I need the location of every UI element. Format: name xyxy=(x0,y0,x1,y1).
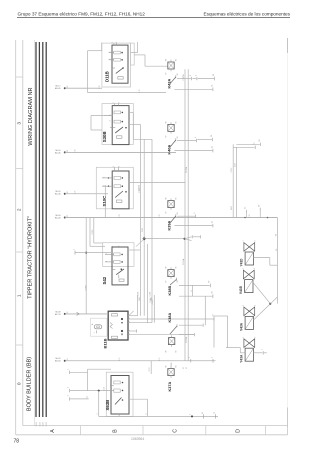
svg-text:30: 30 xyxy=(259,140,261,142)
svg-text:6: 6 xyxy=(190,75,192,76)
wire main rail y=217.5 xyxy=(65,217,278,219)
wire vertical x=87.5 lower xyxy=(87,369,89,390)
frame left border xyxy=(15,40,17,435)
wire long vertical x=152 xyxy=(151,152,153,322)
svg-text:1: 1 xyxy=(202,412,204,413)
pin xyxy=(262,349,264,354)
pin 15 xyxy=(254,143,256,149)
svg-text:C137: C137 xyxy=(234,163,236,167)
svg-text:31: 31 xyxy=(183,367,185,369)
svg-text:3: 3 xyxy=(104,185,106,186)
svg-text:2: 2 xyxy=(118,102,120,103)
svg-text:S10C: S10C xyxy=(102,196,107,207)
wire vertical x=90 xyxy=(89,218,91,247)
letter row tick xyxy=(205,426,207,435)
svg-text:0.75: 0.75 xyxy=(159,214,161,217)
svg-text:30: 30 xyxy=(211,291,213,293)
svg-text:1: 1 xyxy=(112,246,114,247)
svg-text:86: 86 xyxy=(166,59,168,61)
svg-text:31: 31 xyxy=(245,207,247,209)
svg-text:C105A: C105A xyxy=(137,184,140,190)
svg-text:2: 2 xyxy=(17,208,23,211)
wire X63B right y=399 xyxy=(129,398,148,400)
wire K38B upper xyxy=(179,284,210,286)
wire vertical x=154 xyxy=(153,295,155,323)
frame zone tick xyxy=(16,251,23,253)
wire K40A lower xyxy=(174,150,212,152)
svg-text:3: 3 xyxy=(68,395,70,396)
wire vertical x=144 upper xyxy=(143,139,145,237)
svg-text:85: 85 xyxy=(175,59,177,61)
svg-text:2: 2 xyxy=(68,387,70,388)
svg-text:D: D xyxy=(236,429,242,433)
svg-text:85: 85 xyxy=(175,198,177,200)
junction on bottom rail xyxy=(191,415,193,417)
svg-text:2: 2 xyxy=(146,414,148,415)
wire bottom rail y=416.4 xyxy=(99,415,218,417)
frame letter row top line xyxy=(23,425,288,427)
pin xyxy=(194,333,196,336)
pin on x=140 xyxy=(138,292,140,301)
wire B11 right y=319 xyxy=(128,318,214,320)
svg-text:1: 1 xyxy=(112,42,114,43)
svg-text:31: 31 xyxy=(211,221,213,223)
svg-text:2: 2 xyxy=(255,337,257,338)
wire long y=92.5 xyxy=(88,92,167,94)
wire into Y43A xyxy=(240,352,245,354)
wire vertical x=86 xyxy=(85,218,87,314)
svg-text:3: 3 xyxy=(129,322,131,323)
svg-text:Grupo 37 Esquema eléctrico FM9: Grupo 37 Esquema eléctrico FM9, FM12, FH… xyxy=(18,12,146,17)
svg-text:86: 86 xyxy=(166,267,168,269)
svg-text:TIPPER TRACTOR “HYDROKIT”: TIPPER TRACTOR “HYDROKIT” xyxy=(27,216,33,299)
svg-text:1: 1 xyxy=(73,249,75,250)
svg-text:S30B: S30B xyxy=(102,131,107,142)
wire fan lower xyxy=(185,239,192,241)
wire diagonal V43B to junction xyxy=(253,283,270,304)
pin xyxy=(212,314,214,321)
wire step right of S30B xyxy=(133,138,152,140)
wire y=399 left xyxy=(70,398,89,400)
wire vertical x=87.5 xyxy=(87,51,89,93)
wire xyxy=(193,236,200,238)
wire K40A upper xyxy=(177,140,196,142)
connector unit X63B xyxy=(105,372,133,416)
wire xyxy=(192,78,196,80)
wire xyxy=(264,352,267,354)
relay K38B contact xyxy=(170,278,177,285)
svg-text:C105A: C105A xyxy=(182,258,185,265)
wire feed node at y=194 xyxy=(55,191,108,196)
wire into D11B upper left xyxy=(88,50,102,52)
svg-text:K38A: K38A xyxy=(168,313,172,323)
wire vertical x=147.5 xyxy=(147,244,149,323)
frame right border faint segment xyxy=(287,53,289,408)
wire feed node bottom rail y=361 xyxy=(55,358,216,363)
svg-text:1: 1 xyxy=(189,357,191,358)
svg-text:85: 85 xyxy=(175,122,177,124)
svg-text:1: 1 xyxy=(68,369,70,370)
svg-text:1: 1 xyxy=(17,294,23,297)
wire long vertical x=185 xyxy=(184,69,186,361)
switch S10C xyxy=(96,167,133,209)
svg-text:1.0: 1.0 xyxy=(119,414,121,416)
wire diagonal into B11 corner xyxy=(129,311,134,316)
svg-text:Y43D: Y43D xyxy=(239,258,243,267)
svg-text:2: 2 xyxy=(111,380,113,381)
svg-text:31: 31 xyxy=(186,367,188,369)
frame zone tick xyxy=(16,168,23,170)
svg-text:5: 5 xyxy=(195,137,197,138)
pin xyxy=(136,329,138,332)
wire vertical x=236 xyxy=(235,147,237,217)
wire vertical x=192.5 xyxy=(192,285,194,296)
wire vertical x=214 xyxy=(213,316,215,348)
wire to pin 30 xyxy=(198,78,214,80)
svg-text:85: 85 xyxy=(175,351,177,353)
connector X at B11 left xyxy=(91,318,108,336)
wire K38A upper xyxy=(179,324,203,326)
letter row tick xyxy=(265,426,267,435)
wire y=316 xyxy=(214,315,228,317)
wire vertical x=147.5 lower xyxy=(147,399,149,416)
svg-text:1: 1 xyxy=(262,349,264,350)
wire y=252.6 into S42 xyxy=(75,252,112,254)
switch S42 xyxy=(102,243,134,285)
svg-text:5: 5 xyxy=(129,318,131,319)
pin xyxy=(214,413,216,419)
svg-text:0: 0 xyxy=(17,382,23,385)
wire y=372 xyxy=(70,371,88,373)
power bus line 1 xyxy=(35,42,37,417)
svg-text:87: 87 xyxy=(166,281,168,283)
wire S42 right upper xyxy=(128,249,140,251)
junction x=86 y=252.6 xyxy=(85,252,87,254)
relay K39A contact xyxy=(170,214,176,223)
svg-text:1: 1 xyxy=(113,166,115,167)
svg-text:SE11: SE11 xyxy=(231,206,233,210)
svg-text:5: 5 xyxy=(104,177,106,178)
pin label xyxy=(191,290,193,294)
svg-text:2: 2 xyxy=(214,412,216,413)
wire K43A contact out xyxy=(177,78,191,80)
wire into S30B xyxy=(91,115,112,117)
svg-text:1063964: 1063964 xyxy=(131,437,144,441)
wire K38A lower xyxy=(179,334,194,336)
svg-text:30: 30 xyxy=(67,86,69,88)
svg-text:1.0: 1.0 xyxy=(276,249,278,251)
svg-text:K38B: K38B xyxy=(168,286,172,296)
pin xyxy=(190,75,192,80)
wire diamond to fan y=238.7 xyxy=(146,238,185,240)
relay K38A coil xyxy=(168,335,174,346)
pin on main rail xyxy=(245,207,247,213)
frame right border top segment xyxy=(287,38,289,53)
pin 87 xyxy=(209,281,211,288)
svg-text:2: 2 xyxy=(254,268,256,269)
pin on rail y=361 xyxy=(211,357,213,362)
svg-text:0.75: 0.75 xyxy=(99,85,101,88)
wire vertical x=144 lower xyxy=(143,240,145,316)
wire vertical x=205 xyxy=(204,296,206,325)
pin 30 xyxy=(211,291,213,298)
svg-text:86: 86 xyxy=(166,351,168,353)
svg-text:87: 87 xyxy=(166,73,168,75)
wire step down xyxy=(151,139,153,152)
relay K43A coil xyxy=(168,60,174,71)
wire Y43A out xyxy=(254,352,263,354)
svg-text:30: 30 xyxy=(177,74,179,76)
svg-text:0.75: 0.75 xyxy=(119,358,121,361)
wire K40A upper ext xyxy=(197,139,212,141)
solenoid valve Y43A xyxy=(239,339,254,363)
wire y=182.5 right of S10C xyxy=(129,182,185,184)
svg-text:6: 6 xyxy=(129,334,131,335)
svg-text:2: 2 xyxy=(211,357,213,358)
wire into K43A coil xyxy=(145,65,168,67)
frame bottom border xyxy=(16,434,288,436)
wire y=88 into D11B xyxy=(65,87,102,89)
letter row tick xyxy=(142,426,144,435)
svg-text:D11B: D11B xyxy=(104,71,109,82)
pin tick xyxy=(245,213,247,217)
wire into S42 upper xyxy=(90,245,105,247)
relay K40A contact xyxy=(170,138,176,147)
svg-text:1: 1 xyxy=(243,305,245,306)
pin on rail y=361 xyxy=(189,357,191,362)
svg-text:86: 86 xyxy=(166,198,168,200)
frame zone tick xyxy=(16,76,23,78)
frame column divider xyxy=(22,40,24,426)
svg-text:3: 3 xyxy=(118,246,120,247)
frame right border bottom segment xyxy=(287,408,289,435)
svg-text:30: 30 xyxy=(177,137,179,139)
svg-text:1: 1 xyxy=(243,337,245,338)
wire rail y=152.4 xyxy=(65,151,176,153)
svg-text:A12-A: A12-A xyxy=(55,193,61,196)
wire vertical x=137.6 xyxy=(137,42,139,53)
letter row tick xyxy=(80,426,82,435)
svg-text:BODY BUILDER (BB): BODY BUILDER (BB) xyxy=(27,357,33,411)
svg-text:1: 1 xyxy=(94,333,96,334)
svg-text:1: 1 xyxy=(97,414,99,415)
svg-text:0.75: 0.75 xyxy=(119,214,121,217)
wire B11 right y=334.7 xyxy=(128,334,194,336)
power bus line 4 xyxy=(45,42,47,417)
wire y=55 right of D11B xyxy=(134,54,145,56)
svg-text:C: C xyxy=(173,429,179,433)
pin on x=152 xyxy=(149,292,151,301)
svg-text:0.75: 0.75 xyxy=(139,90,141,93)
wire diagonal from diamond xyxy=(136,239,144,247)
svg-text:31: 31 xyxy=(211,85,213,87)
svg-text:A16-B: A16-B xyxy=(55,87,61,90)
solenoid valve V43A xyxy=(239,307,254,331)
wire y=130 xyxy=(91,129,102,131)
pin 31 xyxy=(211,146,213,153)
wire feed node main rail y=217 xyxy=(55,215,277,220)
wire long vertical x=188 xyxy=(187,69,189,361)
pin xyxy=(68,395,70,400)
relay K37A coil xyxy=(168,366,174,377)
pin xyxy=(68,387,70,392)
header underline xyxy=(17,17,290,19)
wire vertical x=98.7 xyxy=(98,391,100,417)
svg-text:5: 5 xyxy=(194,213,196,214)
wire vertical x=133 xyxy=(132,112,134,139)
wire K37A to rail xyxy=(170,363,172,367)
svg-text:85: 85 xyxy=(175,366,177,368)
svg-text:0.75: 0.75 xyxy=(75,191,77,194)
svg-text:B11B: B11B xyxy=(103,338,108,348)
svg-text:3: 3 xyxy=(110,121,112,122)
svg-text:V43B: V43B xyxy=(239,285,243,294)
relay K38B coil xyxy=(168,267,174,278)
svg-text:1: 1 xyxy=(243,268,245,269)
svg-text:C136: C136 xyxy=(149,292,151,297)
svg-text:30: 30 xyxy=(211,135,213,137)
wire vertical x=151 xyxy=(150,361,152,374)
svg-text:K37A: K37A xyxy=(168,382,172,392)
svg-text:30: 30 xyxy=(177,213,179,215)
svg-text:15: 15 xyxy=(67,312,69,314)
svg-text:5: 5 xyxy=(110,52,112,53)
svg-text:0.75: 0.75 xyxy=(249,214,251,217)
wire y=390.6 xyxy=(70,390,111,392)
svg-text:C105: C105 xyxy=(142,228,144,232)
svg-text:2: 2 xyxy=(255,241,257,242)
junction x=98.7 y=390.6 xyxy=(98,390,100,392)
junction on rail xyxy=(244,217,246,219)
relay K43A contact xyxy=(170,75,176,84)
relay K39A coil xyxy=(168,198,174,209)
wire K39A upper xyxy=(177,215,195,217)
svg-text:WIRING DIAGRAM NR: WIRING DIAGRAM NR xyxy=(28,87,34,145)
power bus line 2 xyxy=(38,42,40,417)
svg-text:A10-A: A10-A xyxy=(55,151,61,154)
svg-text:2: 2 xyxy=(106,253,108,254)
pin tick xyxy=(259,211,261,217)
svg-text:78: 78 xyxy=(14,439,20,445)
wire B11 right y=331 xyxy=(128,330,136,332)
switch S30B xyxy=(102,104,133,145)
power bus line 3 xyxy=(42,42,44,417)
pin on main rail xyxy=(259,205,261,211)
svg-text:5: 5 xyxy=(195,75,197,76)
wire from S30B area to x=140 xyxy=(129,123,140,125)
svg-text:0.75: 0.75 xyxy=(159,358,161,361)
frame zone tick xyxy=(16,344,23,346)
svg-text:S42: S42 xyxy=(102,276,107,284)
wire to right vertical xyxy=(270,264,278,266)
svg-text:87: 87 xyxy=(209,281,211,283)
wire junction to vertical xyxy=(270,297,277,304)
wire from D11B right pin xyxy=(131,52,138,54)
wire feed node at y=152 xyxy=(55,150,176,155)
wire vertical x=145 xyxy=(144,55,146,66)
svg-text:C105B: C105B xyxy=(186,166,188,173)
solenoid valve Y43D xyxy=(239,243,254,267)
wire K38B lower xyxy=(179,295,212,297)
wire vertical x=91 xyxy=(90,116,92,130)
svg-text:A17-B: A17-B xyxy=(55,313,61,316)
svg-text:30: 30 xyxy=(259,205,261,207)
wire long vertical x=140 xyxy=(139,124,141,315)
svg-text:86: 86 xyxy=(166,122,168,124)
wire jog down xyxy=(269,258,271,266)
svg-text:30: 30 xyxy=(67,191,69,193)
svg-text:4: 4 xyxy=(106,261,108,262)
svg-text:31: 31 xyxy=(211,146,213,148)
wire diagonal V43A to junction xyxy=(254,304,271,320)
relay K38A contact xyxy=(170,324,177,334)
wire y=147.3 xyxy=(233,146,254,148)
svg-text:Esquemas eléctricos de los com: Esquemas eléctricos de los componentes xyxy=(203,12,290,17)
wire feed node at y=314 xyxy=(55,311,108,316)
svg-text:X63B: X63B xyxy=(105,400,110,411)
pin xyxy=(202,413,204,419)
wire into B11 top right xyxy=(128,315,138,317)
pin xyxy=(68,369,70,374)
svg-text:2: 2 xyxy=(116,42,118,43)
svg-text:V43A: V43A xyxy=(239,322,243,331)
svg-text:15: 15 xyxy=(254,143,256,145)
wire y=369 into X63B xyxy=(88,368,112,370)
pin xyxy=(202,324,204,327)
wire Y43D out xyxy=(254,257,270,259)
switch module D11B xyxy=(102,43,134,87)
svg-text:30: 30 xyxy=(177,281,179,283)
wire short top xyxy=(101,43,103,51)
wire down to Y43A xyxy=(239,348,241,353)
pin 31 xyxy=(211,221,213,228)
svg-text:87: 87 xyxy=(166,212,168,214)
wire vertical x=233 xyxy=(232,144,234,217)
svg-text:C105B: C105B xyxy=(183,74,185,81)
control unit B11 xyxy=(103,311,128,348)
junction diamond xyxy=(143,237,146,240)
svg-text:6: 6 xyxy=(191,290,193,291)
svg-text:5: 5 xyxy=(110,115,112,116)
wire vertical x=227.6 xyxy=(227,316,229,348)
svg-text:C136B: C136B xyxy=(86,284,88,290)
wire y=144.3 xyxy=(236,143,259,145)
svg-text:K43A: K43A xyxy=(168,79,172,89)
pin xyxy=(191,235,193,238)
junction at diamond xyxy=(143,238,145,240)
wire K39A lower xyxy=(174,225,212,227)
svg-text:86: 86 xyxy=(166,366,168,368)
pin xyxy=(200,235,202,238)
relay K40A coil xyxy=(168,122,174,133)
junction fan x=185 y=238.7 xyxy=(184,238,186,240)
svg-text:C105B: C105B xyxy=(186,336,188,343)
svg-text:4: 4 xyxy=(189,414,191,415)
pin 30 xyxy=(213,74,215,81)
pin xyxy=(195,137,197,142)
svg-text:A: A xyxy=(50,429,56,433)
wire vertical right x=277.4 xyxy=(276,218,278,304)
wire right border lower xyxy=(287,408,289,428)
wire B11 right y=322.7 xyxy=(128,322,152,324)
svg-text:30: 30 xyxy=(67,150,69,152)
pin xyxy=(195,75,197,80)
svg-text:31: 31 xyxy=(67,358,69,360)
svg-text:31: 31 xyxy=(67,215,69,217)
pin 30 xyxy=(259,140,261,146)
wire vertical x=94 xyxy=(93,218,95,244)
svg-text:1: 1 xyxy=(113,102,115,103)
